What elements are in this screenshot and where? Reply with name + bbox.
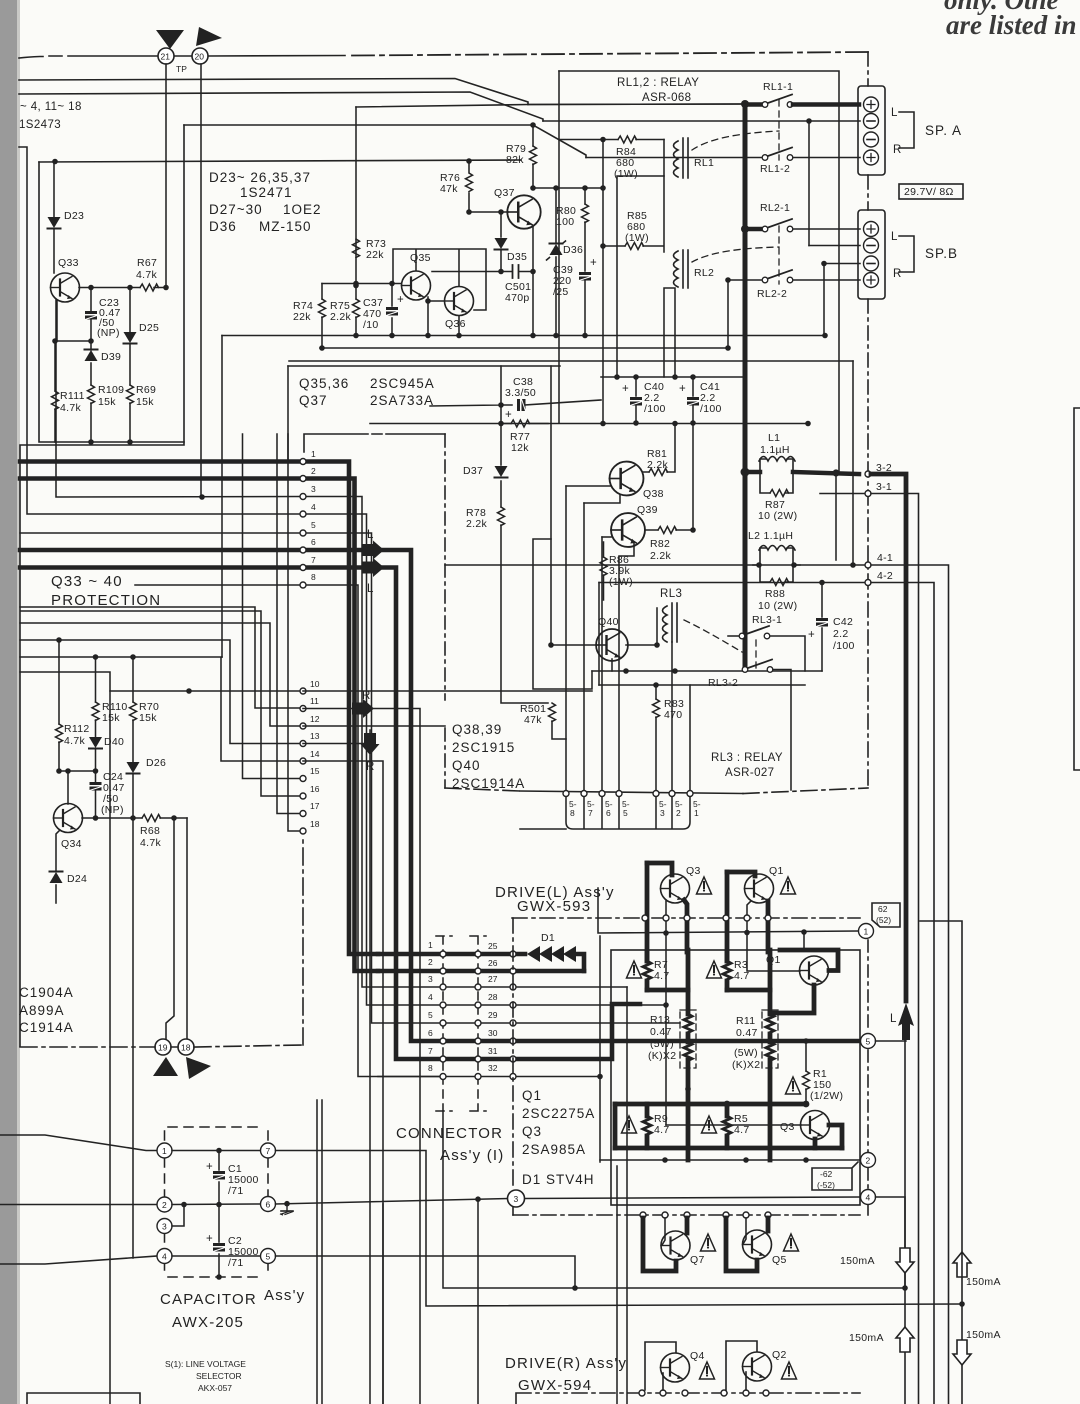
svg-text:GWX-594: GWX-594 xyxy=(518,1377,592,1394)
wire pin6 thick with L arrow xyxy=(20,548,363,553)
svg-text:R109: R109 xyxy=(98,384,124,396)
wire feed y79 to speaker line xyxy=(19,79,528,105)
wire Q33 base row y287 xyxy=(79,287,166,289)
test point TP21 triangle xyxy=(156,30,184,49)
svg-text:D27~30: D27~30 xyxy=(209,202,263,217)
relay coil RL3 xyxy=(663,606,668,642)
transistor Q1 output xyxy=(800,956,829,985)
wire x836 down from L1 node xyxy=(835,473,837,560)
svg-text:GWX-593: GWX-593 xyxy=(517,898,591,915)
wire row6 thick to terminal 5 xyxy=(443,1039,861,1044)
svg-text:D1 STV4H: D1 STV4H xyxy=(522,1172,595,1187)
wire x962 xyxy=(920,921,962,1404)
svg-text:R68: R68 xyxy=(140,825,160,837)
thick bus x745 xyxy=(743,104,748,670)
wire y685 rail xyxy=(599,684,805,686)
svg-text:20: 20 xyxy=(195,52,205,62)
svg-text:1: 1 xyxy=(428,940,433,950)
wire R76 corner from y161 xyxy=(468,161,470,212)
wire horizontal y161 xyxy=(39,160,521,162)
svg-text:3: 3 xyxy=(311,484,316,494)
resistor R110 xyxy=(95,657,97,737)
cap assy terminal 6 xyxy=(261,1197,276,1212)
svg-text:Q34: Q34 xyxy=(61,838,82,850)
svg-text:Q4: Q4 xyxy=(690,1350,705,1362)
wire y361 corner down x853 xyxy=(852,361,854,565)
wire Q1 output emitter thick xyxy=(770,985,814,1013)
wire thick rail y1104 xyxy=(615,1102,806,1107)
terminal 1 xyxy=(598,888,858,933)
wire x603 down to y423 xyxy=(602,246,604,423)
wire pin5 xyxy=(20,532,303,534)
speaker feed arrow L thick xyxy=(898,1003,914,1040)
wire pin8 internal xyxy=(303,585,443,1077)
transistor Q38 xyxy=(610,462,644,496)
svg-text:L1: L1 xyxy=(768,432,780,444)
svg-text:R82: R82 xyxy=(650,538,670,550)
resistor R3 thick xyxy=(725,952,730,990)
svg-text:150mA: 150mA xyxy=(849,1332,884,1344)
wire x443 down to y1288 xyxy=(443,1111,905,1288)
transistor Q7 xyxy=(643,1218,676,1271)
svg-text:28: 28 xyxy=(488,992,498,1002)
wire Q37 emitter down x533 xyxy=(532,226,534,336)
label 29.7V/8ohm box xyxy=(899,184,963,199)
svg-text:(5W): (5W) xyxy=(650,1038,674,1050)
warning triangle R7 xyxy=(627,961,642,978)
diode D35 (zener) xyxy=(500,212,502,272)
svg-text:Q38: Q38 xyxy=(643,488,664,500)
svg-text:1.1µH: 1.1µH xyxy=(760,444,790,456)
wire R73 column x356 junction xyxy=(353,283,359,289)
right edge partial box xyxy=(1074,408,1080,770)
svg-text:Q1: Q1 xyxy=(769,865,784,877)
wire cap assy terminal2 feed xyxy=(0,1204,157,1206)
svg-text:Q33: Q33 xyxy=(58,257,79,269)
wire Q3 base column x666 xyxy=(665,901,667,1125)
svg-text:R67: R67 xyxy=(137,257,157,269)
boundary dash-dot y1045 xyxy=(20,839,303,1047)
svg-text:RL2-1: RL2-1 xyxy=(760,202,790,214)
svg-text:(K)X2: (K)X2 xyxy=(648,1050,676,1062)
capacitor C501 xyxy=(501,271,533,273)
svg-text:4.7: 4.7 xyxy=(654,970,670,982)
svg-text:2: 2 xyxy=(428,957,433,967)
svg-text:4: 4 xyxy=(428,992,433,1002)
wire R84 col down to R85 xyxy=(602,140,604,247)
capacitor C1 xyxy=(218,1151,220,1205)
svg-text:4.7k: 4.7k xyxy=(140,837,161,849)
svg-text:29: 29 xyxy=(488,1010,498,1020)
wire x600 xyxy=(599,936,601,1162)
connector pins 1-8 xyxy=(300,459,306,465)
warning triangle Q3 xyxy=(697,877,712,894)
svg-text:L: L xyxy=(367,529,374,541)
svg-text:0.47: 0.47 xyxy=(736,1027,758,1039)
svg-text:3: 3 xyxy=(428,974,433,984)
svg-text:82k: 82k xyxy=(506,154,524,166)
wire terminal3 strap xyxy=(172,1205,184,1227)
svg-text:4.7k: 4.7k xyxy=(136,269,157,281)
wire Q3 output emitter thick xyxy=(829,1125,842,1148)
svg-text:2: 2 xyxy=(162,1200,167,1210)
svg-text:Ass'y: Ass'y xyxy=(264,1287,305,1304)
svg-text:~ 4, 11~ 18: ~ 4, 11~ 18 xyxy=(20,101,82,113)
wire thick rail y1148 xyxy=(615,1146,842,1151)
svg-text:32: 32 xyxy=(488,1063,498,1073)
transistor Q2 xyxy=(726,1341,757,1390)
connector frame top y434 xyxy=(304,434,445,452)
connector circles col A xyxy=(440,951,446,957)
wire x824 down xyxy=(823,264,825,336)
svg-text:4.7k: 4.7k xyxy=(60,402,81,414)
wire x383 down xyxy=(382,1204,384,1404)
ground symbol xyxy=(281,1204,294,1215)
capacitor C42 xyxy=(821,583,823,672)
capacitor C37 xyxy=(391,284,393,336)
svg-text:7: 7 xyxy=(588,808,593,818)
diode D37 xyxy=(495,466,508,478)
warning triangle Q4 xyxy=(700,1362,715,1379)
svg-text:8: 8 xyxy=(428,1063,433,1073)
svg-text:CAPACITOR: CAPACITOR xyxy=(160,1291,257,1308)
svg-text:10: 10 xyxy=(310,679,320,689)
svg-text:MZ-150: MZ-150 xyxy=(259,219,312,234)
svg-text:/71: /71 xyxy=(228,1257,244,1269)
svg-text:470: 470 xyxy=(664,709,682,721)
diode D36 zener xyxy=(555,188,557,336)
wire Q3 output base xyxy=(666,1124,801,1126)
cap assy terminal 5 xyxy=(261,1249,276,1264)
svg-text:15k: 15k xyxy=(139,712,157,724)
wire y348 rail xyxy=(320,347,728,349)
svg-text:3.3/50: 3.3/50 xyxy=(505,387,536,399)
wire R3 bottom to R11 col thick xyxy=(727,988,770,993)
speaker terminal block SP.B xyxy=(858,210,885,299)
svg-text:27: 27 xyxy=(488,974,498,984)
svg-text:4.7: 4.7 xyxy=(734,970,750,982)
svg-text:13: 13 xyxy=(310,731,320,741)
svg-text:21: 21 xyxy=(161,52,171,62)
resistor R81 xyxy=(643,424,675,473)
svg-text:C1914A: C1914A xyxy=(19,1020,74,1035)
warning triangle Q5 xyxy=(784,1234,799,1251)
wire Q1 base column x747 xyxy=(747,901,800,971)
wire row2 thick xyxy=(378,969,584,974)
wire Q34 collector up xyxy=(67,771,69,804)
svg-text:Ass'y (I): Ass'y (I) xyxy=(440,1147,505,1164)
svg-text:R111: R111 xyxy=(60,390,85,402)
svg-text:A899A: A899A xyxy=(19,1003,65,1018)
switch RL3-1 xyxy=(728,635,739,637)
svg-text:2SC1914A: 2SC1914A xyxy=(452,776,525,791)
resistor R77 xyxy=(501,423,548,425)
svg-text:R11: R11 xyxy=(736,1015,755,1027)
svg-text:150mA: 150mA xyxy=(966,1329,1001,1341)
svg-text:26: 26 xyxy=(488,958,498,968)
wire bottom left stub xyxy=(0,1344,110,1346)
diode D25 xyxy=(129,288,131,386)
capacitor C39 xyxy=(579,272,591,281)
wire thick x615 xyxy=(613,1104,618,1148)
svg-text:Q39: Q39 xyxy=(637,504,658,516)
svg-text:4-2: 4-2 xyxy=(877,570,893,582)
wire Q1 emitter thick x768 xyxy=(766,901,771,952)
svg-text:1: 1 xyxy=(162,1146,167,1156)
svg-text:15k: 15k xyxy=(102,712,120,724)
resistor R73 xyxy=(353,239,360,258)
svg-text:R69: R69 xyxy=(136,384,156,396)
svg-text:C42: C42 xyxy=(833,616,853,628)
svg-text:2.2k: 2.2k xyxy=(650,550,671,562)
transformer box bottom left xyxy=(27,1393,140,1404)
svg-text:31: 31 xyxy=(488,1046,498,1056)
wire boundary right x868 lower xyxy=(867,434,869,788)
terminal 5 with thick feed xyxy=(685,1038,691,1044)
transistor Q5 xyxy=(726,1218,757,1271)
svg-text:/100: /100 xyxy=(833,640,855,652)
svg-text:+: + xyxy=(590,257,597,269)
svg-text:6: 6 xyxy=(428,1028,433,1038)
svg-text:/25: /25 xyxy=(553,286,569,298)
svg-text:RL1-1: RL1-1 xyxy=(763,81,793,93)
svg-text:29.7V/ 8Ω: 29.7V/ 8Ω xyxy=(904,186,954,198)
connector assy dashed outlines xyxy=(436,936,452,1111)
svg-text:1OE2: 1OE2 xyxy=(283,202,322,217)
svg-text:/100: /100 xyxy=(700,403,722,415)
wire top row inside xyxy=(172,1150,260,1152)
svg-text:+: + xyxy=(505,409,512,421)
svg-text:(-52): (-52) xyxy=(817,1180,835,1190)
wire Q1 output collector thick xyxy=(780,950,838,971)
svg-text:Q3: Q3 xyxy=(780,1121,795,1133)
wire pin11 internal with R arrow xyxy=(303,708,352,710)
resistor R82 xyxy=(645,529,693,531)
connector pins 10-18 xyxy=(300,688,306,694)
svg-text:8: 8 xyxy=(311,572,316,582)
svg-text:4: 4 xyxy=(866,1193,871,1203)
svg-text:(1W): (1W) xyxy=(625,232,649,244)
wire box edge x39 xyxy=(39,162,184,442)
resistor R79 xyxy=(532,125,534,188)
resistor R85 xyxy=(603,245,663,247)
resistor R70 xyxy=(132,657,134,762)
TP18 circle xyxy=(178,1039,194,1055)
svg-text:+: + xyxy=(206,1161,213,1173)
resistor R69 xyxy=(127,385,134,404)
wire relay box left edge xyxy=(558,71,560,423)
svg-text:4-1: 4-1 xyxy=(877,552,893,564)
svg-text:+: + xyxy=(397,294,404,306)
resistor R9 thick xyxy=(645,1104,650,1148)
wire Q39 base xyxy=(602,536,611,538)
node R79/Q37 xyxy=(530,185,536,191)
wire x55 down to R111 xyxy=(54,341,56,391)
svg-text:(5W): (5W) xyxy=(734,1047,758,1059)
svg-text:TP: TP xyxy=(176,64,187,74)
svg-text:Q35,36: Q35,36 xyxy=(299,376,349,391)
svg-text:4.7: 4.7 xyxy=(654,1124,670,1136)
warning triangle R9 xyxy=(622,1116,637,1133)
svg-text:22k: 22k xyxy=(366,249,384,261)
svg-text:(K)X2: (K)X2 xyxy=(732,1059,760,1071)
relay mech dash RL1 xyxy=(692,100,779,160)
resistor R67 xyxy=(140,284,159,291)
wire Q40 emitter down xyxy=(611,659,613,671)
wire left lines to pins 10-14 xyxy=(20,607,303,708)
svg-text:150mA: 150mA xyxy=(966,1276,1001,1288)
svg-text:2.2k: 2.2k xyxy=(330,311,351,323)
transistor Q4 xyxy=(645,1342,676,1390)
svg-text:3-1: 3-1 xyxy=(876,481,892,493)
transistor Q39 xyxy=(611,513,645,547)
svg-text:2: 2 xyxy=(676,808,681,818)
wire x905 lower xyxy=(904,1040,906,1404)
capacitor C24 xyxy=(95,771,97,818)
wire row3 xyxy=(443,986,627,988)
capacitor C40 xyxy=(635,377,637,423)
svg-text:AKX-057: AKX-057 xyxy=(198,1383,232,1393)
resistor R7 thick xyxy=(645,952,650,990)
node on y161 at x55 xyxy=(52,159,58,165)
svg-text:(52): (52) xyxy=(876,915,891,925)
resistor R74 xyxy=(321,284,323,349)
svg-text:3: 3 xyxy=(162,1222,167,1232)
wire 5-x pins feed columns xyxy=(566,486,634,791)
connector circles col B xyxy=(475,951,481,957)
svg-text:5: 5 xyxy=(266,1252,271,1262)
boundary DRIVE(L) dash-dot top y918 xyxy=(512,917,860,919)
diode D24 xyxy=(50,872,63,884)
svg-text:3: 3 xyxy=(660,808,665,818)
wire R7 bottom to R13 col thick xyxy=(647,988,688,993)
wire pin10 internal to stair xyxy=(303,690,592,692)
svg-text:2.2: 2.2 xyxy=(833,628,849,640)
150mA up arrow lower left xyxy=(896,1327,914,1352)
cap assy terminal 7 xyxy=(261,1143,276,1158)
resistor R80 xyxy=(584,188,586,271)
capacitor C23 xyxy=(90,288,92,342)
wire x627 down xyxy=(626,987,628,1404)
svg-text:0.47: 0.47 xyxy=(650,1026,672,1038)
TP21 circle xyxy=(158,48,174,64)
TP20 circle xyxy=(192,48,208,64)
boundary DRIVE(L) left x513 xyxy=(512,918,514,1215)
resistor R86 xyxy=(603,542,605,600)
wire left hook y147 to pin4 feed xyxy=(19,147,303,514)
svg-text:D36: D36 xyxy=(209,219,237,234)
wire x693 C41 to R82 xyxy=(692,424,694,531)
terminal 3 xyxy=(508,1190,525,1207)
wire mid row inside xyxy=(172,1203,260,1206)
wire bottom inside xyxy=(172,1255,260,1257)
svg-text:Q37: Q37 xyxy=(494,187,515,199)
svg-text:Q37: Q37 xyxy=(299,393,328,408)
svg-text:25: 25 xyxy=(488,941,498,951)
cap assy terminal 1 xyxy=(157,1143,172,1158)
boundary dash-dot x445 main assembly xyxy=(444,434,446,788)
wire row5 xyxy=(443,1022,680,1024)
wire box left edge x288 xyxy=(287,366,289,461)
diode D40 xyxy=(89,737,102,749)
wire pin12 internal xyxy=(303,725,445,727)
wire Q3 output collector thick xyxy=(813,1139,818,1148)
wire L2 connect stubs xyxy=(753,564,800,566)
wire bias box top y249 xyxy=(393,249,486,310)
diode D26 xyxy=(127,762,140,774)
cap assy terminal 2 xyxy=(157,1197,172,1212)
svg-text:10 (2W): 10 (2W) xyxy=(758,510,797,522)
svg-text:-62: -62 xyxy=(820,1169,833,1179)
svg-text:5: 5 xyxy=(866,1037,871,1047)
boundary DRIVE(L) bottom y1215 xyxy=(513,1214,860,1216)
wire pin3 internal xyxy=(303,497,443,988)
wire y361 long rail xyxy=(289,360,853,362)
wire y671 rail xyxy=(592,670,822,672)
svg-text:15k: 15k xyxy=(98,396,116,408)
wire pin5 internal xyxy=(303,533,443,1023)
wire TP20 drop x201 xyxy=(200,64,202,497)
wire y771 xyxy=(59,770,96,772)
transistor Q34 xyxy=(54,804,83,833)
svg-text:12: 12 xyxy=(310,714,320,724)
svg-text:6: 6 xyxy=(266,1200,271,1210)
svg-text:5: 5 xyxy=(428,1010,433,1020)
svg-text:5: 5 xyxy=(311,520,316,530)
150mA up arrow right xyxy=(953,1252,971,1277)
resistor R112 xyxy=(58,640,60,771)
switch RL2-1 xyxy=(745,227,762,232)
capacitor C41 xyxy=(692,377,694,423)
svg-text:RL3-2: RL3-2 xyxy=(708,677,738,689)
svg-text:2SC945A: 2SC945A xyxy=(370,376,435,391)
svg-text:+: + xyxy=(622,383,629,395)
svg-text:2SA985A: 2SA985A xyxy=(522,1142,586,1157)
test point TP20 triangle xyxy=(196,27,222,46)
wire term4 to x905 xyxy=(876,1197,906,1288)
svg-text:DRIVE(R) Ass'y: DRIVE(R) Ass'y xyxy=(505,1355,627,1372)
speaker terminal block SP.A xyxy=(858,86,885,175)
wire Q37 base row y212 xyxy=(469,211,508,213)
warning triangle R5 xyxy=(702,1116,717,1133)
resistor R78 xyxy=(498,507,505,526)
wire y107 feed to relay xyxy=(356,104,741,107)
svg-text:62: 62 xyxy=(878,904,888,914)
wire x478 down xyxy=(477,1199,479,1404)
wire column x54 D23/Q33 xyxy=(53,162,55,274)
terminal 2 xyxy=(600,1159,860,1161)
wire corner x184 down to y445 across to left edge xyxy=(20,125,184,1046)
resistor R111 xyxy=(52,391,59,410)
wire pin1 thick xyxy=(20,462,378,955)
wire SP.A minus y121 xyxy=(543,120,860,122)
wire cap assy terminal1 feed xyxy=(0,1135,157,1151)
wire Q34 base row y818 xyxy=(82,817,142,819)
wire pin4 internal xyxy=(303,514,443,1005)
svg-text:ASR-027: ASR-027 xyxy=(725,767,774,779)
svg-text:2SC2275A: 2SC2275A xyxy=(522,1106,595,1121)
warning triangle R1 xyxy=(786,1077,801,1094)
svg-text:D25: D25 xyxy=(139,322,159,334)
svg-text:D26: D26 xyxy=(146,757,166,769)
boundary pins top row xyxy=(642,915,648,921)
svg-text:47k: 47k xyxy=(440,183,458,195)
svg-text:19: 19 xyxy=(158,1043,168,1053)
resistor R76 xyxy=(466,173,473,192)
boundary pins bottom row xyxy=(640,1212,646,1218)
wire Q33 emitter down xyxy=(55,300,57,341)
transistor Q35 xyxy=(402,271,431,300)
